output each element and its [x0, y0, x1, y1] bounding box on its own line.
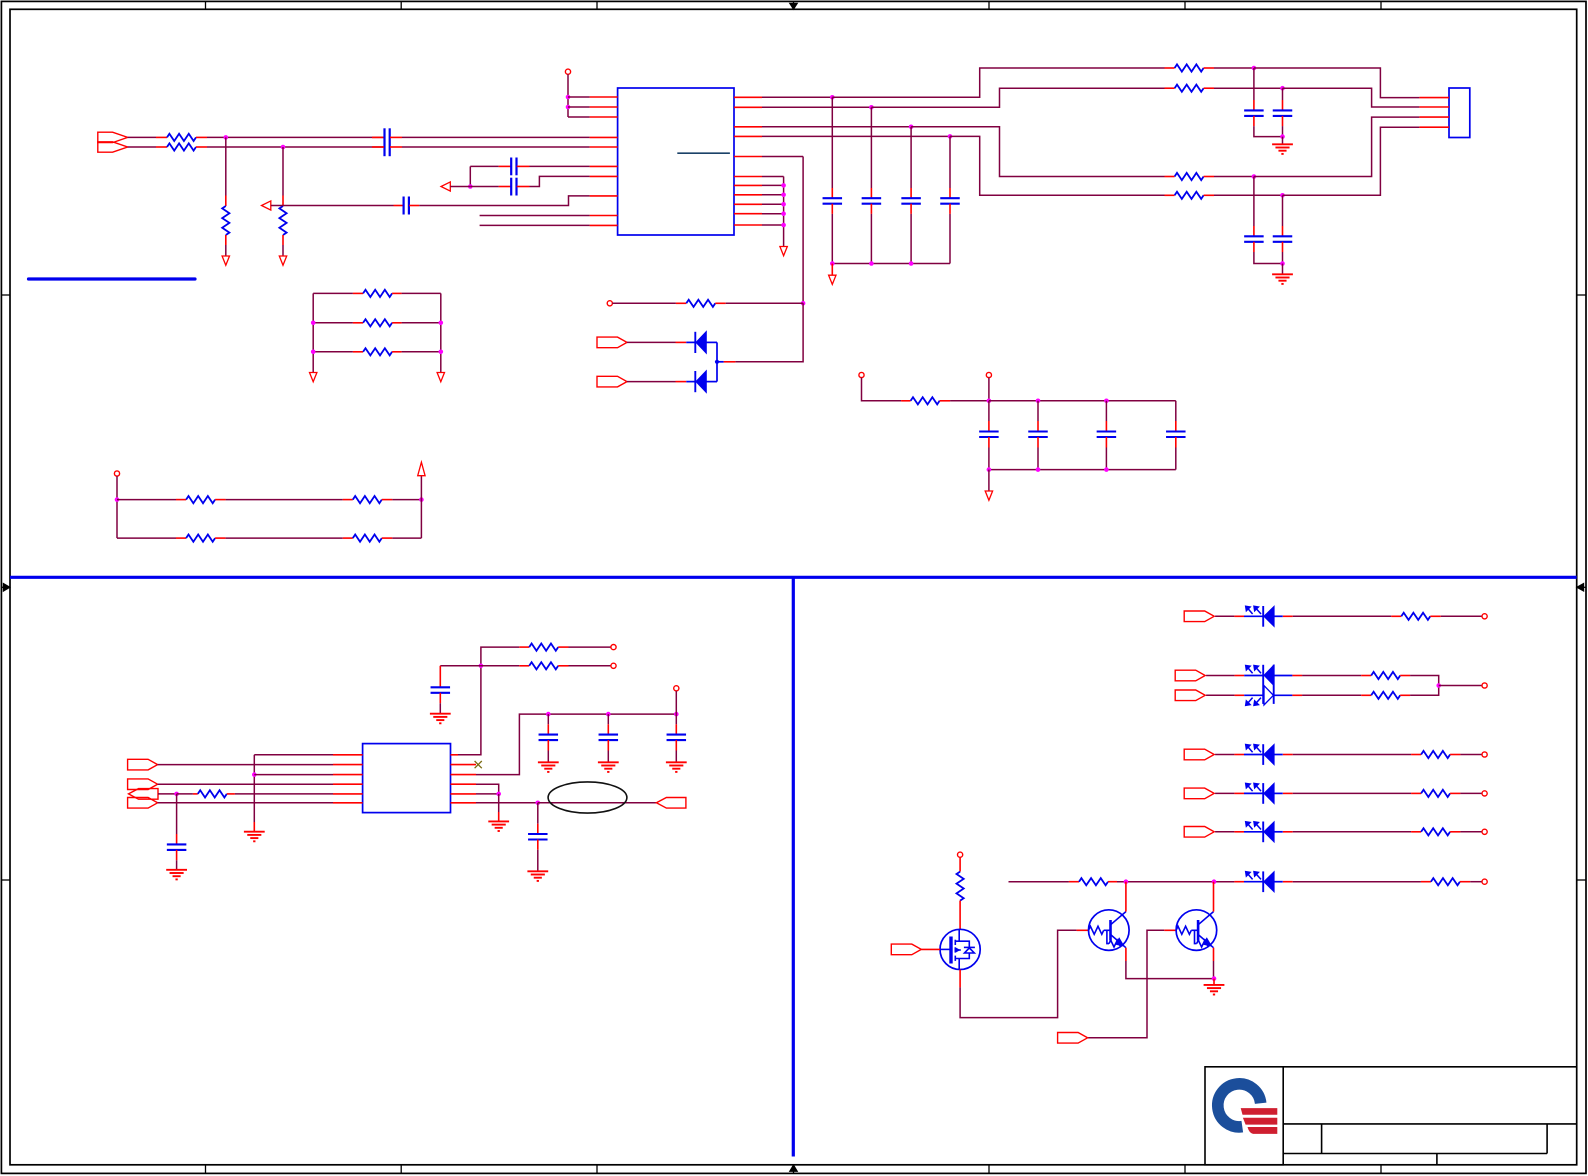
node junction [781, 223, 786, 228]
wire [1293, 792, 1411, 794]
port BASE2 [1058, 1033, 1088, 1044]
resistor R15 [343, 537, 353, 539]
resistor R3 [225, 196, 227, 207]
resistor R28 [959, 857, 961, 871]
ground [598, 761, 619, 763]
wire [1293, 881, 1421, 883]
port LED4 [1184, 749, 1214, 760]
border zone ticks top [205, 1, 207, 9]
node junction [1124, 879, 1129, 884]
port LED3 [1175, 690, 1205, 701]
capacitor C at x=950 [949, 136, 951, 188]
wire [254, 774, 333, 776]
node junction [1212, 976, 1217, 981]
wire [392, 499, 421, 501]
ground [527, 870, 548, 872]
node junction [311, 350, 316, 355]
wire [1214, 176, 1254, 178]
resistor R26 [1069, 881, 1079, 883]
resistor R22 [1292, 694, 1302, 696]
pin P6 [611, 645, 616, 650]
wire [158, 764, 333, 766]
resistor R23 [1411, 754, 1421, 756]
node junction [869, 261, 874, 266]
node junction [948, 134, 953, 139]
wire [530, 165, 590, 167]
wire [568, 106, 590, 108]
transistor Q1 mosfet [940, 929, 980, 969]
wire U2 pin6 [476, 802, 538, 804]
node junction [781, 183, 786, 188]
port A3 [129, 789, 159, 800]
capacitor C at x=1175.8 [1175, 401, 1177, 421]
node junction [566, 105, 571, 110]
wire [470, 186, 498, 188]
resistor R18 [519, 646, 529, 648]
node junction [566, 95, 571, 100]
capacitor C at x=832.3 [831, 97, 833, 188]
node junction [987, 467, 992, 472]
capacitor C at x=548.3 [547, 714, 549, 724]
wire [988, 378, 990, 401]
port IN2 [597, 376, 627, 387]
port LED1 [1184, 611, 1214, 622]
connector J1 [98, 132, 128, 142]
wire Q2 emitter [1125, 948, 1127, 961]
logo ring [1218, 1084, 1261, 1127]
wire [1254, 117, 1420, 176]
net arrow [441, 182, 450, 191]
wire [440, 665, 481, 667]
node junction [1252, 174, 1257, 179]
port LED6 [1184, 827, 1214, 838]
resistor R20 [1391, 615, 1401, 617]
border center arrow bottom [793, 1171, 795, 1173]
node junction [1104, 399, 1109, 404]
node junction [1036, 399, 1041, 404]
node junction [909, 125, 914, 130]
wire [1214, 87, 1283, 89]
wire [1254, 68, 1420, 98]
connector J2 [1449, 88, 1470, 138]
transistor Q2 npn [1077, 929, 1089, 931]
capacitor C6 [1253, 68, 1255, 100]
wire diode tie [716, 342, 718, 381]
node junction [987, 399, 992, 404]
wire Q2 collector [1125, 882, 1127, 912]
border center arrow left [1, 586, 4, 588]
resistor R21 [1292, 675, 1302, 677]
wire [1439, 685, 1482, 687]
wire net3 [762, 126, 911, 128]
node junction [439, 321, 444, 326]
wire [1293, 831, 1411, 833]
wire [1117, 881, 1234, 883]
capacitor C9 [1282, 195, 1284, 226]
wire rail bottom [989, 469, 1176, 471]
node junction [546, 712, 551, 717]
capacitor C12 [537, 803, 539, 824]
wire [1214, 194, 1283, 196]
wire [675, 691, 677, 714]
ground [538, 761, 559, 763]
resistor R6 [1165, 87, 1175, 89]
wire [254, 754, 333, 756]
capacitor C4 [499, 186, 511, 188]
node junction [781, 193, 786, 198]
wire [1215, 792, 1234, 794]
node junction [252, 772, 257, 777]
resistor R7 [1165, 176, 1175, 178]
capacitor C7 [1282, 88, 1284, 100]
ground [310, 373, 317, 382]
pin P13 [1482, 829, 1487, 834]
node junction [468, 184, 473, 189]
wire [128, 146, 156, 148]
node junction [536, 801, 541, 806]
ground [1282, 264, 1284, 275]
node junction [1280, 193, 1285, 198]
wire Q3 collector [1213, 882, 1215, 912]
pin P7 [611, 663, 616, 668]
wire [450, 186, 470, 188]
net arrow [262, 201, 271, 210]
pin P5 [986, 372, 991, 377]
wire [627, 381, 676, 383]
capacitor C3 [470, 165, 498, 167]
wire [1410, 686, 1439, 696]
capacitor C11 [439, 666, 441, 688]
resistor R16 [901, 400, 911, 402]
capacitor C5 [394, 205, 404, 207]
wire [128, 136, 156, 138]
ground [222, 256, 229, 265]
wire [802, 157, 804, 304]
wire [627, 341, 676, 343]
node junction [606, 712, 611, 717]
node junction [801, 301, 806, 306]
wire [950, 400, 989, 402]
ground [253, 822, 255, 832]
ground [437, 373, 444, 382]
ground [666, 761, 687, 763]
pins U1 left [590, 96, 618, 98]
wire [498, 794, 500, 812]
wire [225, 245, 227, 256]
port LED2 [1175, 670, 1205, 681]
ground [279, 256, 286, 265]
wire [862, 378, 902, 401]
wire [612, 302, 676, 304]
LED D6 [1234, 792, 1244, 794]
IC U2 [363, 744, 451, 813]
wire [950, 136, 1165, 195]
wire [225, 137, 227, 195]
node junction [174, 792, 179, 797]
LED D7 [1234, 831, 1244, 833]
pins J2 [1419, 97, 1449, 99]
pin P4 [859, 372, 864, 377]
heading underline top-left [29, 277, 196, 280]
wire net1 [762, 96, 832, 98]
wire [402, 136, 590, 138]
capacitor C2 [372, 146, 384, 148]
wire [1215, 831, 1234, 833]
pin P2 [607, 301, 612, 306]
wire [530, 176, 590, 186]
wire [282, 147, 284, 196]
port IN1 [597, 337, 627, 348]
wire net5 [762, 156, 803, 158]
ground [780, 247, 787, 256]
wire [569, 665, 611, 667]
wire [271, 205, 394, 207]
capacitor C8 [1253, 177, 1255, 227]
capacitor C1 [372, 136, 384, 138]
border zone ticks right [1577, 294, 1586, 296]
node junction [781, 211, 786, 216]
ground [1282, 137, 1284, 145]
diode D2 [676, 381, 687, 383]
port A4 [128, 798, 158, 809]
wire [988, 470, 990, 491]
resistor R10 row2 [313, 322, 353, 324]
wire [726, 302, 803, 304]
wire [469, 166, 471, 186]
capacitor C at x=608.3 [607, 714, 609, 724]
wire [831, 264, 833, 276]
section divider line horizontal [10, 576, 1577, 579]
wire stub [480, 224, 590, 226]
pin P15 [958, 852, 963, 857]
node junction [439, 350, 444, 355]
node junction [869, 105, 874, 110]
wire [1215, 615, 1234, 617]
title block frame [1205, 1067, 1577, 1165]
resistor R27 [1421, 881, 1431, 883]
wire [1441, 615, 1482, 617]
wire [207, 146, 384, 148]
border center arrow right [1583, 586, 1586, 588]
resistor R9 [676, 302, 686, 304]
node junction [1280, 261, 1285, 266]
ground [1213, 979, 1215, 985]
pin P12 [1482, 791, 1487, 796]
resistor R25 [1411, 831, 1421, 833]
wire [569, 646, 611, 648]
node junction [830, 95, 835, 100]
wire [419, 196, 589, 206]
wire gnd bus [762, 176, 784, 178]
wire LED7 rail [1009, 881, 1069, 883]
resistor R19 [481, 665, 519, 667]
resistor R17 [193, 793, 198, 795]
node junction [419, 497, 424, 502]
node junction [496, 792, 501, 797]
wire cap bottom tie [832, 263, 950, 265]
wire [1206, 694, 1235, 696]
resistor R14 [117, 537, 176, 539]
capacitor C10 [176, 794, 178, 834]
node junction [781, 202, 786, 207]
capacitor C at x=911.1 [910, 127, 912, 188]
node junction [1280, 86, 1285, 91]
LED D8 [1234, 881, 1244, 883]
pin [724, 361, 736, 363]
border zone ticks left [1, 294, 10, 296]
wire [1283, 127, 1420, 195]
wire [253, 755, 255, 822]
ground [498, 812, 500, 821]
capacitor C at x=676.3 [675, 714, 677, 724]
wire [177, 793, 193, 795]
node junction [311, 321, 316, 326]
ground [430, 713, 451, 715]
ground [829, 275, 836, 284]
resistor R5 [1165, 67, 1175, 69]
wire [312, 293, 314, 372]
pin P10 [1482, 683, 1487, 688]
wire [871, 88, 1164, 107]
wire [420, 476, 422, 538]
ferrite bead ellipse [548, 782, 627, 813]
capacitor C at x=1038 [1037, 401, 1039, 421]
resistor R11 row3 [313, 351, 353, 353]
no-connect X [475, 761, 482, 768]
border center arrow top [793, 1, 795, 4]
node junction [115, 497, 120, 502]
wire [1460, 792, 1482, 794]
capacitor C at x=988.9 [988, 401, 990, 421]
wire [1293, 615, 1392, 617]
wire [158, 802, 333, 804]
wire [832, 68, 1164, 97]
wire [402, 146, 590, 148]
wire [226, 499, 343, 501]
wire Q3 emitter [1213, 948, 1215, 961]
node junction [674, 712, 679, 717]
diode D1 [676, 341, 687, 343]
wire [911, 127, 1164, 177]
wire [567, 74, 569, 117]
border zone ticks bottom [205, 1165, 207, 1174]
wire U2pin3 riser [476, 714, 676, 775]
resistor R4 [282, 196, 284, 207]
resistor R8 [1165, 194, 1175, 196]
port LED5 [1184, 788, 1214, 799]
pin P1 [565, 69, 570, 74]
LED D3 [1234, 615, 1244, 617]
IC U1 [618, 88, 734, 235]
pin P3 [114, 471, 119, 476]
wire [226, 537, 343, 539]
node junction [281, 145, 286, 150]
pins U2 right [451, 754, 459, 756]
port GATE [891, 944, 921, 955]
wire net4 [762, 135, 950, 137]
pin P9 [1482, 614, 1487, 619]
wire [1470, 881, 1482, 883]
pin P14 [1482, 879, 1487, 884]
resistor network rows [313, 292, 353, 294]
transistor Q3 npn [1164, 929, 1176, 931]
wire [1283, 88, 1420, 107]
port A2 [128, 779, 158, 790]
wire U2 pins4+5 [476, 784, 499, 794]
node junction [1104, 467, 1109, 472]
wire stub [480, 215, 590, 217]
wire [538, 802, 657, 804]
wire [158, 793, 177, 795]
port A1 [128, 759, 158, 770]
wire [207, 136, 384, 138]
wire [116, 476, 118, 538]
LED D5 [1234, 754, 1244, 756]
node junction [479, 664, 484, 669]
pin P8 [674, 686, 679, 691]
capacitor C at x=1106.4 [1105, 401, 1107, 421]
resistor R1 [156, 136, 167, 138]
LED pair D4 [1235, 675, 1245, 677]
node junction [224, 135, 229, 140]
node junction [1252, 66, 1257, 71]
pins U1 right [734, 96, 762, 98]
wire [1215, 754, 1234, 756]
port A5 [656, 798, 686, 809]
pins U2 left [333, 754, 363, 756]
wire [1214, 67, 1254, 69]
resistor R12 [117, 499, 176, 501]
wire [158, 783, 333, 785]
ground [166, 869, 187, 871]
ground [985, 491, 992, 500]
node junction [830, 261, 835, 266]
node junction [1212, 879, 1217, 884]
pin [921, 948, 940, 950]
wire net2 [762, 106, 871, 108]
wire [1410, 676, 1439, 686]
wire [392, 537, 421, 539]
resistor R13 [343, 499, 353, 501]
wire [735, 303, 803, 362]
wire source [959, 970, 961, 988]
wire [1460, 754, 1482, 756]
wire [568, 96, 590, 98]
wire [235, 793, 333, 795]
wire [1460, 831, 1482, 833]
IC U1 crystal line [677, 152, 730, 154]
wire rail [989, 400, 1176, 402]
capacitor C at x=871.4 [870, 107, 872, 188]
power arrow [418, 462, 425, 476]
pin P11 [1482, 752, 1487, 757]
section divider line vertical [792, 577, 795, 1156]
wire U2pin1 riser [458, 647, 519, 755]
wire Q3 base [1087, 930, 1165, 1038]
node junction [1036, 467, 1041, 472]
resistor R24 [1411, 792, 1421, 794]
node junction [1280, 134, 1285, 139]
wire [568, 116, 590, 118]
wire [1293, 754, 1411, 756]
logo stripes [1241, 1108, 1278, 1134]
node junction [1436, 683, 1441, 688]
wire [282, 245, 284, 256]
resistor R2 [156, 146, 167, 148]
wire [440, 293, 442, 372]
node junction [909, 261, 914, 266]
wire [1206, 675, 1235, 677]
